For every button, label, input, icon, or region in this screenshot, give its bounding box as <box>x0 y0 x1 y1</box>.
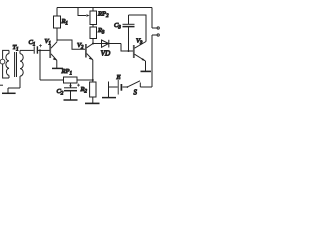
output terminal lower <box>152 34 157 36</box>
resistor R3 <box>90 27 97 39</box>
diode VD <box>102 40 109 47</box>
transformer T1 primary winding <box>8 50 10 53</box>
wire right side down to switch <box>151 35 153 87</box>
switch S <box>140 86 152 88</box>
svg-text:VD: VD <box>101 50 111 58</box>
ground bar V1 emitter <box>52 67 63 69</box>
plus mark C2 <box>77 84 80 87</box>
node V2 collector junction <box>92 43 94 45</box>
wire V1 collector to V2 base (step) <box>57 40 86 49</box>
transistor V1 <box>49 45 51 58</box>
svg-text:V3: V3 <box>136 38 143 47</box>
wire RP1 row <box>40 79 93 81</box>
wire to diode <box>93 43 109 45</box>
wire C1 to V1 base <box>38 49 50 51</box>
svg-text:V1: V1 <box>45 38 51 47</box>
svg-text:S: S <box>134 90 138 97</box>
svg-text:C3: C3 <box>114 22 121 31</box>
wire feedback drop to RP1 <box>39 50 41 80</box>
ground bar battery node <box>102 97 116 99</box>
ground bar T1 <box>2 92 16 94</box>
capacitor C2 <box>64 87 77 89</box>
capacitor C1 <box>33 46 35 53</box>
ground bar C2 <box>64 99 78 101</box>
svg-text:T1: T1 <box>13 44 19 53</box>
transistor V3 <box>133 45 135 58</box>
wire rail right corner down <box>151 8 153 29</box>
node C3 base junction <box>128 50 130 52</box>
wire RP2 wiper tap from rail <box>78 8 86 16</box>
input source circle <box>0 59 5 64</box>
svg-text:C2: C2 <box>57 88 64 97</box>
ground bar R2 <box>85 102 100 104</box>
svg-text:R1: R1 <box>61 18 68 27</box>
wire input bottom <box>3 64 9 78</box>
output terminal upper <box>152 27 157 29</box>
wire C3 top to V3 collector <box>129 15 147 42</box>
resistor R1 <box>56 8 58 17</box>
transformer T1 secondary winding <box>19 50 21 53</box>
node V1 base feedback junction <box>39 49 41 51</box>
plus mark C1 <box>39 44 42 47</box>
svg-text:R3: R3 <box>97 27 105 36</box>
transformer T1 core <box>14 52 16 77</box>
capacitor C3 <box>128 27 130 51</box>
svg-text:E: E <box>116 74 121 81</box>
potentiometer RP2 <box>92 8 94 12</box>
wire top supply rail <box>57 7 152 9</box>
resistor R2 <box>90 82 96 97</box>
wire input top <box>3 50 9 59</box>
potentiometer RP1 <box>64 77 78 83</box>
wire secondary bottom to ground <box>8 87 20 89</box>
svg-text:R2: R2 <box>80 86 88 95</box>
svg-text:RP2: RP2 <box>97 11 109 20</box>
svg-text:RP1: RP1 <box>61 68 72 77</box>
node V2 emitter / RP1 / R2 junction <box>92 79 94 81</box>
transistor V2 <box>85 44 87 58</box>
wire diode to V3 base <box>121 44 133 52</box>
svg-text:C1: C1 <box>29 39 36 48</box>
battery E <box>120 84 122 91</box>
stub left edge <box>0 84 3 86</box>
